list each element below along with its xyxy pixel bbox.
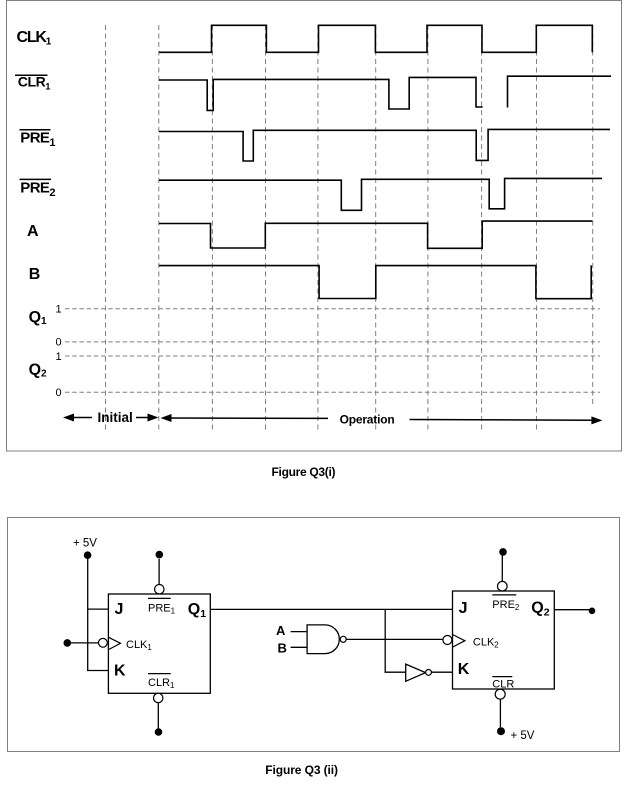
pin CLR1 bubble — [154, 693, 163, 702]
svg-text:0: 0 — [56, 337, 62, 349]
flip-flop U1 body — [108, 594, 210, 693]
svg-text:B: B — [29, 266, 41, 283]
pin CLK1 bubble — [99, 638, 108, 647]
wire CLR2 down — [499, 699, 501, 727]
operation arrow right line — [410, 419, 596, 422]
svg-text:A: A — [276, 623, 286, 638]
node CLR2 bottom dot — [497, 727, 505, 735]
wire J1 input — [88, 608, 109, 610]
wire A input — [291, 631, 308, 633]
svg-text:A: A — [27, 223, 39, 240]
operation arrow right head — [591, 416, 602, 424]
node CLR1 bottom dot — [155, 728, 163, 736]
svg-text:0: 0 — [56, 387, 62, 399]
wire into inverter — [385, 671, 406, 673]
label CLR (U2) overline — [492, 676, 512, 678]
node PRE1 top dot — [156, 551, 164, 559]
pin CLK1 edge triangle — [109, 637, 121, 649]
svg-text:Figure Q3(i): Figure Q3(i) — [272, 465, 336, 479]
svg-text:K: K — [114, 663, 126, 680]
frame: timing diagram outer box — [7, 1, 622, 452]
pin PRE2 bubble — [498, 581, 508, 591]
svg-text:CLR1: CLR1 — [148, 677, 175, 690]
svg-text:+ 5V: + 5V — [73, 538, 97, 550]
svg-text:K: K — [458, 661, 470, 678]
label PRE2 overline — [20, 178, 52, 180]
node PRE2 top dot — [499, 548, 507, 556]
svg-text:B: B — [278, 641, 287, 656]
pin CLK2 edge triangle — [453, 635, 465, 648]
wire CLK1 input — [67, 642, 98, 644]
label CLR1 (U1) overline — [148, 673, 171, 675]
inverter G2 triangle — [406, 664, 426, 681]
wire PRE1 up — [158, 559, 160, 585]
svg-text:J: J — [115, 601, 124, 618]
wire K1 input — [87, 670, 108, 672]
svg-text:CLR: CLR — [492, 678, 514, 690]
wire B input — [291, 646, 308, 648]
svg-text:PRE1: PRE1 — [20, 130, 55, 150]
wire branch vertical to inverter — [384, 609, 386, 672]
waveform B — [159, 265, 591, 298]
operation arrow left line — [168, 417, 328, 419]
grid horizontal dashed lines (Q1/Q2 levels) — [65, 309, 600, 393]
svg-text:Initial: Initial — [98, 410, 133, 425]
operation arrow left head — [161, 414, 172, 422]
label PRE1 overline — [20, 129, 51, 131]
inverter G2 bubble — [426, 670, 432, 676]
grid vertical dashed lines — [106, 25, 593, 433]
label CLR1 overline — [15, 74, 48, 76]
frame: circuit outer box — [8, 518, 620, 752]
svg-text:CLK1: CLK1 — [17, 29, 52, 48]
pin CLR2 bubble — [495, 689, 505, 699]
svg-text:Q1: Q1 — [188, 601, 206, 620]
svg-text:PRE1: PRE1 — [148, 602, 176, 615]
svg-text:J: J — [459, 600, 468, 617]
node +5V left dot — [84, 551, 92, 559]
nand gate G1 bubble — [340, 636, 346, 642]
svg-text:CLK2: CLK2 — [473, 637, 499, 650]
wire PRE2 up — [501, 556, 503, 582]
nand gate G1 body — [307, 625, 339, 654]
wire +5V vertical to J/K — [87, 557, 89, 671]
label PRE2 (U2) overline — [492, 594, 516, 596]
label PRE1 (U1) overline — [148, 597, 171, 599]
wire nand output to CLK2 — [346, 638, 443, 640]
svg-text:1: 1 — [56, 351, 62, 363]
waveform PRE1 — [159, 129, 610, 161]
svg-text:CLR1: CLR1 — [18, 74, 51, 92]
waveform CLR1 left part — [159, 77, 483, 110]
svg-text:Figure Q3 (ii): Figure Q3 (ii) — [265, 763, 338, 777]
node CLK1 input dot — [64, 639, 72, 647]
svg-text:Operation: Operation — [340, 413, 395, 427]
wire Q2 output — [554, 609, 589, 611]
svg-text:Q2: Q2 — [29, 361, 47, 379]
svg-text:CLK1: CLK1 — [126, 639, 152, 652]
flip-flop U2 body — [453, 591, 555, 689]
initial arrow left — [66, 417, 92, 419]
wire inverter output to K2 — [431, 671, 452, 673]
wire Q1 to J2 — [210, 608, 452, 610]
svg-text:PRE2: PRE2 — [20, 179, 55, 199]
pin PRE1 bubble — [155, 585, 164, 594]
waveform CLK1 — [159, 25, 592, 52]
wire CLR1 down — [157, 703, 159, 729]
svg-text:+ 5V: + 5V — [511, 730, 535, 742]
svg-text:Q2: Q2 — [531, 600, 549, 619]
svg-text:Q1: Q1 — [29, 309, 47, 327]
svg-text:PRE2: PRE2 — [492, 599, 520, 612]
node Q2 output dot — [589, 608, 596, 615]
initial arrow right — [136, 417, 153, 419]
waveform A — [159, 221, 592, 248]
waveform CLR1 right part — [508, 76, 612, 107]
svg-text:1: 1 — [56, 304, 62, 316]
waveform PRE2 — [159, 178, 602, 210]
pin CLK2 bubble — [443, 636, 452, 645]
